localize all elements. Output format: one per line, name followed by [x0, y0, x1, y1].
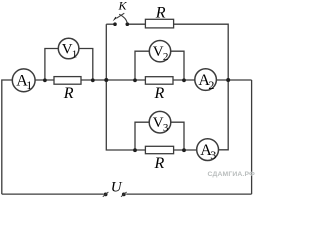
wire V2 branch right	[171, 51, 184, 80]
node V1 left junction	[43, 78, 47, 82]
svg-text:U: U	[111, 180, 123, 196]
terminal U right	[121, 192, 127, 197]
svg-text:3: 3	[163, 122, 169, 134]
wire right rail	[251, 80, 253, 194]
wire row3 center vertical down and across	[106, 80, 145, 150]
wire row2 R2 to A2	[173, 79, 195, 81]
wire switch lead	[106, 23, 113, 25]
svg-text:K: K	[118, 0, 128, 12]
node V3 right	[182, 148, 186, 152]
ammeter A1	[12, 69, 35, 92]
svg-text:R: R	[63, 85, 74, 102]
wire bottom left	[2, 193, 104, 195]
wire left rail	[2, 80, 12, 194]
terminal U left	[103, 192, 109, 197]
node V2 right	[182, 78, 186, 82]
svg-text:2: 2	[163, 51, 169, 63]
svg-text:R: R	[154, 85, 165, 102]
wire switch to top R	[129, 23, 146, 25]
svg-text:R: R	[154, 155, 165, 172]
wire V2 branch left	[135, 51, 149, 80]
wire row2 A2 to right rail	[216, 79, 251, 81]
wire V1 branch right	[79, 49, 93, 81]
wire row1 from A1 to R	[35, 79, 54, 81]
wire top R to right corner, down to node	[174, 24, 229, 80]
ammeter A3	[197, 139, 219, 162]
wire row1 from R to center node	[81, 79, 106, 81]
wire center vertical	[105, 24, 107, 80]
voltmeter V3	[149, 111, 171, 134]
svg-text:R: R	[155, 4, 166, 21]
resistor R2	[145, 77, 173, 85]
wire row3 R3 to A3	[174, 149, 197, 151]
svg-text:СДАМГИА.РФ: СДАМГИА.РФ	[208, 171, 256, 178]
svg-text:1: 1	[72, 48, 78, 60]
switch K	[113, 13, 129, 26]
svg-text:3: 3	[210, 148, 216, 162]
wire V3 branch left	[135, 122, 149, 150]
wire row3 A3 up to node	[219, 80, 229, 150]
node right junction	[226, 78, 230, 82]
resistor R3	[145, 146, 173, 153]
node V2 left	[133, 78, 137, 82]
resistor R1	[54, 77, 81, 85]
voltmeter V1	[58, 38, 79, 60]
resistor R top	[145, 19, 173, 28]
wire V1 branch left	[45, 49, 59, 81]
wire row2 center node to R2	[106, 79, 145, 81]
ammeter A2	[195, 69, 217, 92]
node V3 left	[133, 148, 137, 152]
wire bottom right	[126, 193, 251, 195]
node center junction	[104, 78, 108, 82]
voltmeter V2	[149, 41, 170, 64]
svg-text:1: 1	[26, 78, 32, 92]
wire V3 branch right	[171, 122, 184, 150]
svg-text:2: 2	[208, 78, 214, 92]
node V1 right junction	[91, 78, 95, 82]
